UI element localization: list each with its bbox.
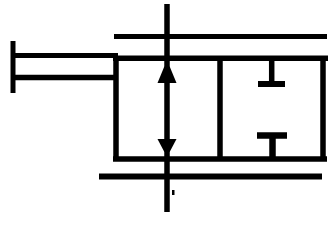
plunger actuator head bar <box>11 41 16 93</box>
valve body center division <box>217 56 223 161</box>
blocked port T bottom: stem <box>269 138 276 159</box>
flow arrowhead up <box>158 60 177 83</box>
blocked port T bottom: crossbar <box>257 132 287 139</box>
top pipe line <box>114 34 327 39</box>
flow arrowhead down <box>158 139 177 157</box>
valve body left edge <box>113 56 119 162</box>
blocked port T top: stem <box>269 58 275 82</box>
actuator rod bottom <box>11 75 118 81</box>
actuator rod top <box>11 53 118 58</box>
bottom pipe line <box>99 174 322 180</box>
blocked port T top: crossbar <box>258 81 285 87</box>
vertical flow line through ports <box>164 4 170 212</box>
valve body right edge <box>320 56 326 162</box>
valve body top edge <box>113 55 328 61</box>
small ink speck <box>172 190 175 195</box>
valve body bottom edge <box>113 156 327 162</box>
